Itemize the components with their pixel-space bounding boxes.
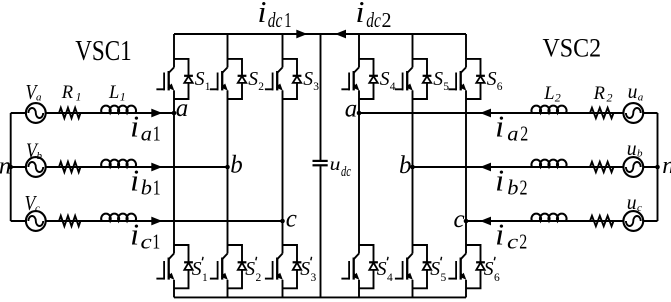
svg-text:S: S bbox=[487, 68, 497, 90]
svg-text:VSC2: VSC2 bbox=[543, 34, 602, 63]
label i_a2 bbox=[495, 108, 528, 145]
wire: leg 2 (upper emitter to lower collector, through phase node) bbox=[227, 90, 229, 253]
label V_a bbox=[26, 80, 43, 104]
node c (VSC2 phase c) bbox=[464, 219, 469, 224]
svg-text:b: b bbox=[507, 175, 518, 199]
svg-text:b: b bbox=[637, 148, 643, 160]
wire: phase b line (right, VSC2 to source) bbox=[413, 166, 658, 168]
wire: leg 4 (upper emitter to lower collector, through phase node) bbox=[358, 90, 360, 253]
diode D'3 (antiparallel of S'3) bbox=[293, 262, 302, 270]
svg-text:2: 2 bbox=[519, 229, 527, 253]
wire: capacitor branch upper bbox=[320, 34, 322, 160]
svg-text:a: a bbox=[507, 121, 518, 145]
svg-text:i: i bbox=[130, 108, 139, 143]
svg-text:c: c bbox=[286, 205, 297, 232]
wire: S5 cell loop bbox=[413, 59, 428, 99]
svg-text:4: 4 bbox=[390, 81, 396, 93]
wire: leg 4 (lower emitter to bottom bus) bbox=[358, 280, 360, 298]
label i_b2 bbox=[495, 162, 527, 199]
wire: leg 5 (lower emitter to bottom bus) bbox=[412, 280, 414, 298]
svg-text:dc: dc bbox=[366, 8, 381, 32]
svg-text:dc: dc bbox=[341, 164, 351, 180]
svg-text:S: S bbox=[380, 68, 390, 90]
svg-text:S: S bbox=[300, 258, 310, 280]
label S'3 bbox=[300, 257, 316, 284]
diode D'4 (antiparallel of S'4) bbox=[369, 262, 378, 270]
wire: leg 5 (bus to upper IGBT collector) bbox=[412, 34, 414, 67]
wire: leg 1 (bus to upper IGBT collector) bbox=[173, 34, 175, 67]
transistor S1 (IGBT) bbox=[156, 67, 174, 90]
resistor R1 (phase b) bbox=[59, 162, 80, 172]
svg-text:b: b bbox=[141, 175, 152, 199]
current arrow i_b2 bbox=[480, 163, 491, 172]
svg-text:R: R bbox=[593, 84, 605, 104]
svg-text:a: a bbox=[141, 121, 152, 145]
wire: phase a line (right, VSC2 to source) bbox=[359, 112, 658, 114]
label L_2 bbox=[543, 84, 561, 105]
svg-text:L: L bbox=[543, 84, 554, 104]
label S1 bbox=[195, 68, 211, 93]
label S'4 bbox=[377, 257, 393, 284]
svg-text:S: S bbox=[377, 258, 387, 280]
svg-text:S: S bbox=[433, 68, 443, 90]
label i_b1 bbox=[130, 162, 160, 199]
svg-text:2: 2 bbox=[607, 91, 613, 105]
svg-text:2: 2 bbox=[555, 91, 561, 105]
svg-text:c: c bbox=[35, 203, 40, 215]
svg-text:R: R bbox=[61, 83, 73, 103]
label L1 bbox=[108, 83, 126, 104]
svg-text:i: i bbox=[495, 162, 504, 197]
current arrow i_c2 bbox=[480, 217, 491, 226]
svg-text:5: 5 bbox=[441, 272, 447, 284]
svg-text:c: c bbox=[637, 202, 642, 214]
svg-text:i: i bbox=[495, 108, 504, 143]
diode D1 (antiparallel of S1) bbox=[184, 76, 193, 83]
wire: phase b line (left, source to VSC1) bbox=[11, 166, 228, 168]
transistor S'1 (IGBT) bbox=[156, 254, 174, 280]
svg-text:u: u bbox=[330, 154, 341, 174]
inductor L2 (phase c) bbox=[531, 214, 566, 221]
label S6 bbox=[487, 68, 503, 93]
inductor L1 (phase a) bbox=[101, 106, 136, 113]
svg-text:VSC1: VSC1 bbox=[75, 35, 132, 67]
wire: leg 2 (bus to upper IGBT collector) bbox=[227, 34, 229, 67]
wire: capacitor branch lower bbox=[320, 166, 322, 297]
svg-text:u: u bbox=[627, 190, 637, 214]
label S'6 bbox=[484, 257, 500, 284]
svg-text:3: 3 bbox=[313, 81, 319, 93]
label i_a1 bbox=[130, 108, 160, 145]
label S3 bbox=[303, 68, 319, 93]
transistor S2 (IGBT) bbox=[210, 67, 228, 90]
svg-text:6: 6 bbox=[494, 272, 500, 284]
wire: S'1 cell loop bbox=[174, 245, 189, 288]
resistor R2 (phase b) bbox=[590, 162, 614, 172]
svg-text:S: S bbox=[192, 258, 202, 280]
svg-text:n: n bbox=[0, 153, 11, 180]
diode D3 (antiparallel of S3) bbox=[293, 76, 302, 83]
wire: S4 cell loop bbox=[359, 59, 374, 99]
transistor S5 (IGBT) bbox=[395, 67, 413, 90]
wire: S'5 cell loop bbox=[413, 245, 428, 288]
current arrow i_c1 bbox=[151, 217, 162, 226]
svg-text:1: 1 bbox=[205, 81, 211, 93]
svg-text:c: c bbox=[507, 229, 519, 253]
resistor R2 (phase c) bbox=[590, 216, 614, 226]
label S'5 bbox=[430, 257, 446, 284]
svg-text:n: n bbox=[662, 152, 671, 179]
label S'2 bbox=[245, 257, 261, 284]
svg-text:i: i bbox=[130, 162, 139, 197]
svg-text:1: 1 bbox=[153, 175, 161, 199]
transistor S3 (IGBT) bbox=[265, 67, 283, 90]
diode D2 (antiparallel of S2) bbox=[238, 76, 247, 83]
inductor L1 (phase b) bbox=[101, 160, 136, 167]
svg-text:2: 2 bbox=[256, 272, 262, 284]
wire: S'3 cell loop bbox=[283, 245, 298, 288]
wire: leg 6 (bus to upper IGBT collector) bbox=[465, 34, 467, 67]
svg-text:L: L bbox=[108, 83, 119, 103]
wire: bottom DC bus (- rail) bbox=[174, 296, 466, 298]
label u_b bbox=[627, 136, 643, 160]
wire: leg 6 (upper emitter to lower collector, through phase node) bbox=[465, 90, 467, 253]
wire: S1 cell loop bbox=[174, 59, 189, 99]
label S'1 bbox=[192, 257, 208, 284]
svg-text:1: 1 bbox=[152, 229, 160, 253]
label S4 bbox=[380, 68, 396, 93]
source V_a (AC source phase a) bbox=[26, 103, 46, 123]
svg-text:S: S bbox=[303, 68, 313, 90]
wire: leg 4 (bus to upper IGBT collector) bbox=[358, 34, 360, 67]
source u_b (AC source phase b) bbox=[623, 157, 643, 177]
svg-text:c: c bbox=[141, 229, 153, 253]
svg-text:S: S bbox=[195, 68, 205, 90]
diode D'6 (antiparallel of S'6) bbox=[476, 262, 485, 270]
inductor L2 (phase b) bbox=[531, 160, 566, 167]
wire: left neutral bus bbox=[10, 113, 12, 221]
wire: leg 6 (lower emitter to bottom bus) bbox=[465, 280, 467, 298]
svg-text:b: b bbox=[37, 150, 43, 162]
diode D5 (antiparallel of S5) bbox=[423, 76, 432, 83]
label V_c bbox=[25, 191, 41, 215]
current arrow i_dc2 (leftward on top bus) bbox=[335, 30, 346, 39]
svg-text:1: 1 bbox=[153, 121, 161, 145]
svg-text:b: b bbox=[399, 152, 412, 179]
svg-text:i: i bbox=[356, 0, 365, 29]
diode D'1 (antiparallel of S'1) bbox=[184, 262, 193, 270]
label i_dc1 bbox=[258, 0, 292, 32]
wire: top DC bus (+ rail) bbox=[174, 33, 466, 35]
wire: leg 1 (lower emitter to bottom bus) bbox=[173, 280, 175, 298]
label i_c2 bbox=[495, 216, 527, 253]
wire: leg 3 (lower emitter to bottom bus) bbox=[282, 280, 284, 298]
current arrow i_a2 bbox=[480, 109, 491, 118]
diode D'2 (antiparallel of S'2) bbox=[238, 262, 247, 270]
svg-text:1: 1 bbox=[76, 90, 82, 104]
label i_c1 bbox=[130, 216, 160, 253]
svg-text:1: 1 bbox=[284, 8, 291, 32]
svg-text:1: 1 bbox=[120, 90, 126, 104]
source V_c (AC source phase c) bbox=[26, 211, 46, 231]
node a (VSC1 phase a) bbox=[172, 111, 177, 116]
svg-text:3: 3 bbox=[311, 272, 317, 284]
svg-text:2: 2 bbox=[382, 8, 392, 32]
svg-text:1: 1 bbox=[202, 272, 208, 284]
svg-text:dc: dc bbox=[268, 8, 283, 32]
svg-text:S: S bbox=[430, 258, 440, 280]
source V_b (AC source phase b) bbox=[26, 157, 46, 177]
svg-text:S: S bbox=[248, 68, 258, 90]
source u_a (AC source phase a) bbox=[623, 103, 643, 123]
label R1 bbox=[61, 83, 82, 104]
diode D6 (antiparallel of S6) bbox=[476, 76, 485, 83]
wire: leg 3 (bus to upper IGBT collector) bbox=[282, 34, 284, 67]
svg-text:a: a bbox=[176, 95, 189, 122]
wire: phase a line (left, source to VSC1) bbox=[11, 112, 174, 114]
inductor L1 (phase c) bbox=[101, 214, 136, 221]
svg-text:i: i bbox=[495, 216, 504, 251]
label S2 bbox=[248, 68, 264, 93]
label V_b bbox=[26, 138, 43, 162]
transistor S6 (IGBT) bbox=[448, 67, 466, 90]
wire: right neutral bus bbox=[657, 113, 659, 221]
label u_dc bbox=[330, 154, 352, 180]
wire: S'6 cell loop bbox=[466, 245, 481, 288]
svg-text:6: 6 bbox=[497, 81, 503, 93]
svg-text:a: a bbox=[638, 91, 644, 103]
transistor S'3 (IGBT) bbox=[265, 254, 283, 280]
wire: leg 2 (lower emitter to bottom bus) bbox=[227, 280, 229, 298]
transistor S'4 (IGBT) bbox=[341, 254, 359, 280]
source u_c (AC source phase c) bbox=[623, 211, 643, 231]
wire: S3 cell loop bbox=[283, 59, 298, 99]
svg-text:i: i bbox=[130, 216, 139, 251]
label u_c bbox=[627, 190, 642, 214]
svg-text:u: u bbox=[627, 136, 637, 160]
wire: S'2 cell loop bbox=[228, 245, 243, 288]
resistor R1 (phase a) bbox=[59, 108, 80, 118]
node n (left neutral) bbox=[8, 165, 13, 170]
node n (right neutral) bbox=[655, 165, 660, 170]
svg-text:4: 4 bbox=[387, 272, 393, 284]
svg-text:a: a bbox=[36, 92, 42, 104]
wire: phase c line (left, source to VSC1) bbox=[11, 220, 283, 222]
node c (VSC1 phase c) bbox=[280, 219, 285, 224]
transistor S'6 (IGBT) bbox=[448, 254, 466, 280]
svg-text:2: 2 bbox=[258, 81, 264, 93]
transistor S4 (IGBT) bbox=[341, 67, 359, 90]
inductor L2 (phase a) bbox=[531, 106, 566, 113]
diode D4 (antiparallel of S4) bbox=[369, 76, 378, 83]
svg-text:b: b bbox=[230, 151, 243, 178]
svg-text:c: c bbox=[454, 206, 465, 233]
svg-text:u: u bbox=[628, 79, 638, 103]
svg-text:5: 5 bbox=[443, 81, 449, 93]
wire: leg 3 (upper emitter to lower collector, through phase node) bbox=[282, 90, 284, 253]
wire: leg 5 (upper emitter to lower collector, through phase node) bbox=[412, 90, 414, 253]
wire: S'4 cell loop bbox=[359, 245, 374, 288]
label R_2 bbox=[593, 84, 613, 105]
wire: leg 1 (upper emitter to lower collector, through phase node) bbox=[173, 90, 175, 253]
label u_a bbox=[628, 79, 644, 104]
diode D'5 (antiparallel of S'5) bbox=[423, 262, 432, 270]
node a (VSC2 phase a) bbox=[357, 111, 362, 116]
current arrow i_a1 bbox=[151, 109, 162, 118]
label S5 bbox=[433, 68, 449, 93]
resistor R2 (phase a) bbox=[590, 108, 614, 118]
svg-text:i: i bbox=[258, 0, 267, 29]
wire: phase c line (right, VSC2 to source) bbox=[466, 220, 658, 222]
capacitor C (dc link) bbox=[313, 161, 328, 165]
resistor R1 (phase c) bbox=[59, 216, 80, 226]
svg-text:a: a bbox=[345, 96, 358, 123]
current arrow i_dc1 (rightward on top bus) bbox=[296, 30, 307, 39]
svg-text:S: S bbox=[484, 258, 494, 280]
transistor S'5 (IGBT) bbox=[395, 254, 413, 280]
svg-text:S: S bbox=[245, 258, 255, 280]
wire: S2 cell loop bbox=[228, 59, 243, 99]
label i_dc2 bbox=[356, 0, 392, 32]
transistor S'2 (IGBT) bbox=[210, 254, 228, 280]
wire: S6 cell loop bbox=[466, 59, 481, 99]
current arrow i_b1 bbox=[151, 163, 162, 172]
node b (VSC1 phase b) bbox=[225, 165, 230, 170]
svg-text:2: 2 bbox=[520, 175, 528, 199]
node b (VSC2 phase b) bbox=[410, 165, 415, 170]
svg-text:2: 2 bbox=[520, 121, 528, 145]
